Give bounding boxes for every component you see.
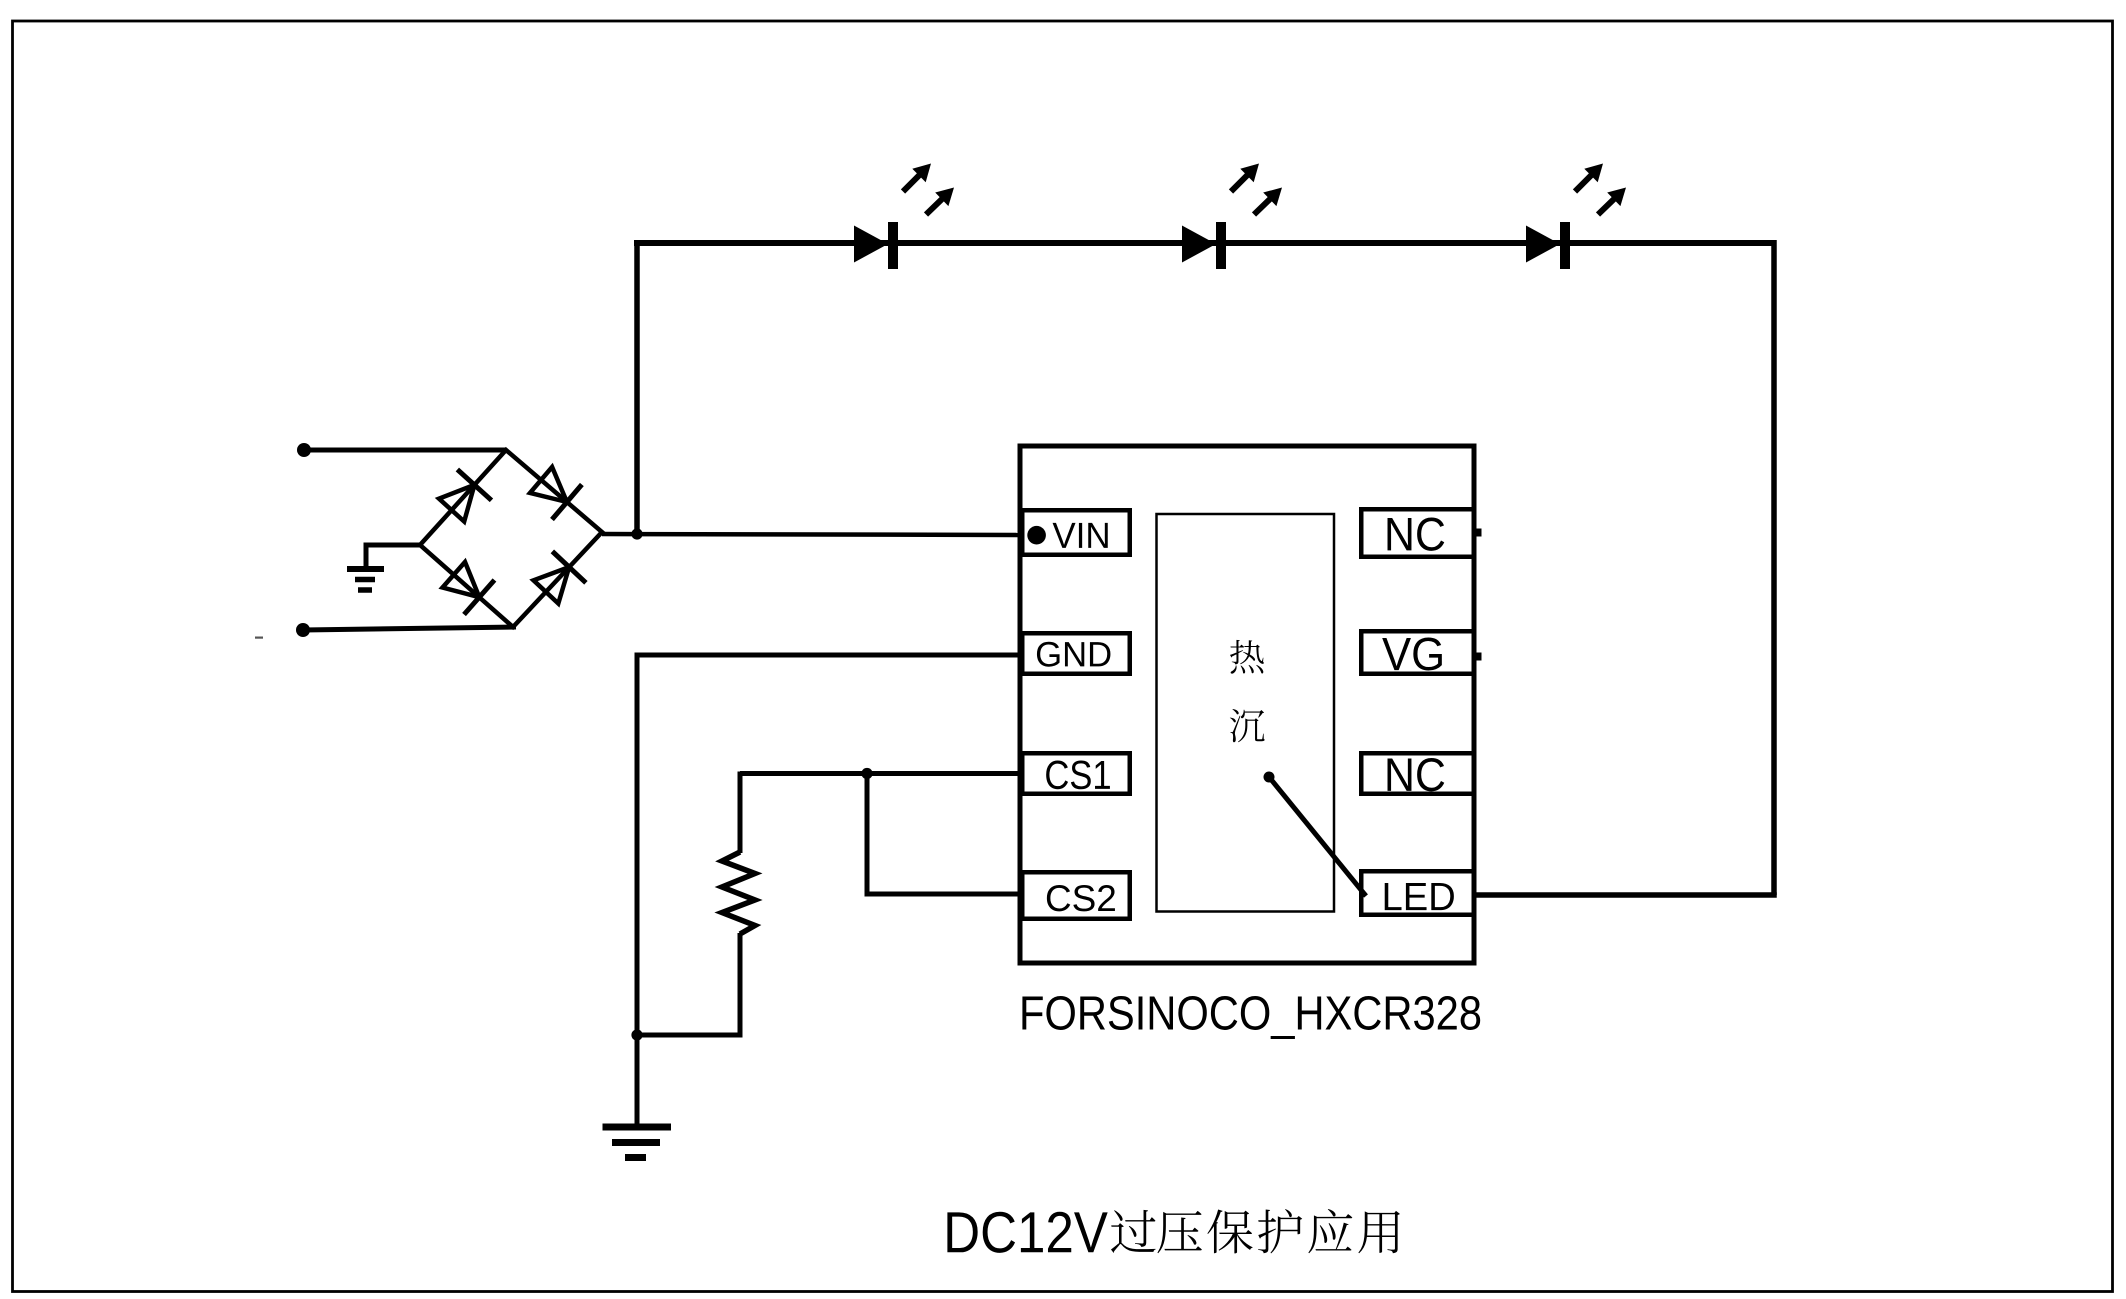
- caption char 保: [1207, 1209, 1252, 1253]
- IC U1 outline: [1020, 446, 1474, 963]
- caption char 用: [1358, 1211, 1400, 1253]
- ground (main) bar1: [603, 1124, 672, 1131]
- LED D1 light arrows: [903, 173, 921, 191]
- bridge diode D6 (left-bottom): [443, 562, 480, 597]
- caption char 过: [1111, 1210, 1156, 1253]
- pin label CS1: [1046, 761, 1110, 790]
- LED D2 light arrows: [1231, 173, 1249, 191]
- wire: CS1 pin left: [740, 771, 1022, 776]
- pin box VG (right): [1361, 631, 1474, 674]
- pin label CS2: [1047, 885, 1115, 911]
- heat sink leader line: [1269, 777, 1366, 896]
- pin label GND: [1037, 642, 1111, 667]
- ground (bridge) bar1: [347, 566, 384, 572]
- wire: CS1 to resistor top: [738, 772, 743, 854]
- node junction J3: [861, 768, 872, 779]
- heat sink label 沉: [1230, 709, 1265, 742]
- resistor R1: [722, 852, 755, 934]
- pin box NC (right): [1361, 509, 1474, 557]
- LED D2: [1182, 226, 1216, 263]
- pin label VIN: [1053, 523, 1108, 548]
- LED D3: [1526, 226, 1560, 263]
- ground (main) bar3: [625, 1154, 646, 1161]
- pin label NC (top): [1388, 518, 1445, 551]
- pin box CS2: [1022, 872, 1130, 919]
- wire: resistor bottom to J2: [637, 933, 740, 1035]
- wire: bridge to VIN: [602, 534, 1022, 535]
- terminal dot bottom: [296, 623, 310, 637]
- wire: J3 to CS2 pin: [867, 774, 1022, 895]
- heat sink box: [1157, 514, 1335, 912]
- wire: GND pin to down: [637, 655, 1022, 1124]
- caption char 应: [1308, 1209, 1352, 1253]
- ground (bridge) bar3: [358, 587, 372, 593]
- pin 1 dot: [1027, 526, 1046, 545]
- terminal dot top: [297, 443, 311, 457]
- bridge diode D7 (bottom-right): [534, 567, 570, 603]
- LED D3 light arrows: [1575, 173, 1593, 191]
- bridge diode D5 (top-right): [530, 467, 567, 502]
- wire: bottom terminal to bridge: [303, 627, 516, 630]
- wire: top LED chain: [634, 240, 1774, 246]
- caption DC12V: [947, 1212, 1107, 1253]
- bridge diamond: [420, 450, 602, 627]
- bridge diode D4 (left-top): [439, 485, 474, 522]
- heat sink leader dot: [1264, 772, 1275, 783]
- pin box LED (right): [1361, 871, 1474, 915]
- pin label LED: [1385, 883, 1454, 910]
- pin label VG: [1382, 637, 1442, 670]
- pin box NC2 (right): [1361, 753, 1474, 794]
- pin label NC (mid): [1388, 758, 1445, 791]
- pin stub NC right: [1477, 529, 1482, 537]
- wire: bridge left to ground: [366, 545, 420, 566]
- caption char 压: [1157, 1211, 1201, 1253]
- node junction J2: [631, 1029, 642, 1040]
- pin stub VG right: [1477, 653, 1482, 661]
- node junction J1: [631, 528, 642, 539]
- ground (main) bar2: [612, 1139, 660, 1146]
- wire: bottom to LED pin: [1476, 892, 1777, 898]
- IC name FORSINOCO_HXCR328: [1022, 996, 1480, 1039]
- ground (bridge) bar2: [355, 577, 375, 583]
- caption char 护: [1258, 1209, 1302, 1253]
- pin box GND: [1022, 633, 1130, 674]
- pin box CS1: [1022, 753, 1130, 794]
- wire: top terminal to bridge: [304, 448, 506, 453]
- pin box VIN: [1022, 510, 1130, 555]
- wire: junction to top corner: [634, 240, 640, 534]
- minus mark: [255, 637, 263, 639]
- wire: right vertical: [1771, 240, 1777, 895]
- LED D1: [854, 226, 888, 263]
- heat sink label 热: [1230, 640, 1264, 674]
